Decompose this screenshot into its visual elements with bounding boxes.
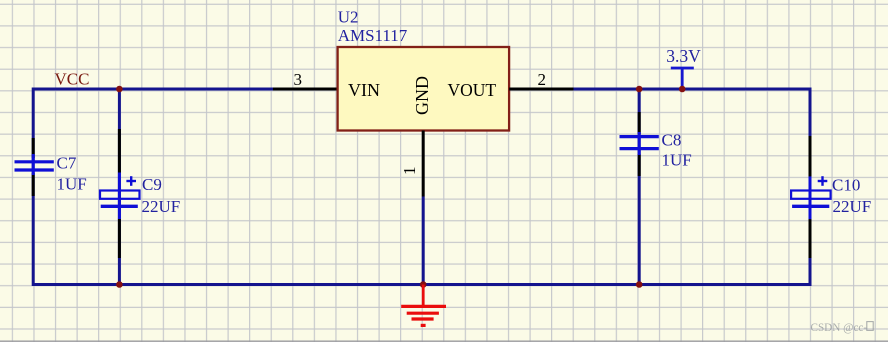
svg-text:C7: C7 [57,154,77,173]
svg-text:VCC: VCC [55,69,90,88]
junction VCC / C9 [116,86,123,93]
wire right vertical rail [809,88,812,287]
svg-text:3: 3 [294,70,303,89]
capacitor C7 [15,138,87,196]
wire 3.3V top right run [574,88,812,91]
power port 3.3V [666,46,701,89]
svg-text:22UF: 22UF [833,197,872,216]
pin 3 [273,70,338,89]
pin 1 [400,131,423,197]
capacitor C9 [100,129,180,258]
watermark [811,322,874,334]
svg-text:VOUT: VOUT [448,80,497,100]
capacitor C8 [620,112,692,176]
junction 3.3V rail / C8 [636,86,643,93]
svg-text:CSDN @cc-: CSDN @cc- [811,322,868,334]
junction bottom / ground [420,281,427,288]
svg-text:2: 2 [538,70,547,89]
wire C8 branch [638,89,641,285]
bottom edge line [0,340,888,342]
capacitor C10 [791,136,871,258]
svg-text:C10: C10 [832,176,860,195]
junction bottom / C9 [116,281,123,288]
svg-text:1UF: 1UF [662,151,692,170]
svg-text:AMS1117: AMS1117 [338,26,408,45]
wire bottom rail [33,283,810,286]
pin 2 [509,70,573,89]
wire GND branch [422,197,425,285]
svg-text:1: 1 [400,167,419,176]
svg-text:22UF: 22UF [142,197,181,216]
svg-text:1UF: 1UF [57,175,87,194]
regulator U2 AMS1117 [338,8,510,131]
svg-text:VIN: VIN [348,80,380,100]
junction 3.3V rail / power port [679,86,686,93]
junction bottom / C8 [636,281,643,288]
svg-text:C9: C9 [142,175,162,194]
svg-text:C8: C8 [662,131,682,150]
svg-text:U2: U2 [338,8,359,27]
wire VCC top rail [33,88,273,91]
wire C9 branch [118,89,121,285]
ground [401,285,446,326]
svg-text:3.3V: 3.3V [666,46,701,66]
wire left vertical rail [32,88,35,287]
svg-text:GND: GND [412,76,432,115]
